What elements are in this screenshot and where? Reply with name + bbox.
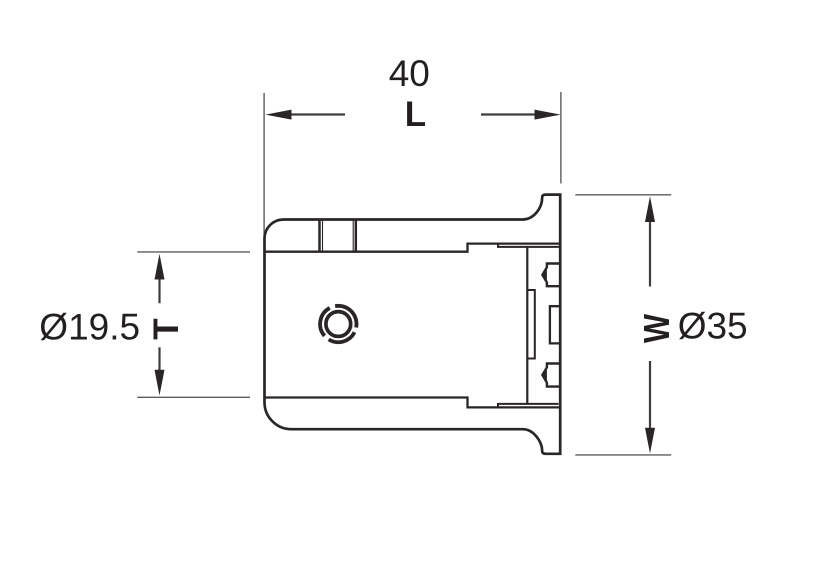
dimension W: up arrowhead (645, 196, 655, 222)
dimension L: dimension line left segment (290, 113, 345, 115)
dimension L: right arrowhead (535, 110, 561, 120)
bottom pin cutout (542, 364, 560, 387)
inner top line with step (265, 244, 560, 252)
svg-text:W: W (636, 314, 677, 343)
bottom pin cutout apex fill (542, 367, 547, 382)
inner bottom line with step (265, 398, 560, 408)
dimension T: bottom extension line (137, 396, 250, 398)
part body outer outline (265, 195, 561, 454)
inner bottom ledge line (498, 404, 559, 408)
top latch detail: left thin bar (322, 220, 324, 252)
dimension W: bottom extension line (575, 454, 671, 456)
dimension W: down arrowhead (645, 428, 655, 454)
dimension L: left arrowhead (265, 110, 291, 120)
dimension W: dimension line lower segment (649, 361, 651, 428)
narrow slot rectangle (527, 290, 535, 359)
svg-text:T: T (147, 318, 186, 339)
svg-text:Ø35: Ø35 (678, 305, 748, 346)
dimension L: left extension line (263, 93, 265, 239)
top pin cutout (542, 264, 560, 287)
svg-text:L: L (405, 95, 426, 134)
middle right rectangle (550, 306, 560, 343)
screw hole inner circle (326, 312, 351, 337)
dimension T: down arrowhead (155, 370, 165, 396)
dimension T: top extension line (137, 251, 250, 253)
socket recess left vertical (526, 247, 528, 404)
dimension T: dimension line upper segment (158, 278, 160, 303)
dimension L: dimension line right segment (481, 113, 535, 115)
dimension T: up arrowhead (155, 254, 165, 280)
top latch detail: right thick bar (355, 220, 358, 252)
screw hole outer arc bottom (329, 332, 355, 342)
dimension L: right extension line (560, 92, 562, 184)
inner top ledge line (498, 244, 559, 247)
top latch detail: left thick bar (318, 220, 321, 252)
svg-text:40: 40 (389, 53, 430, 94)
dimension W: dimension line upper segment (649, 222, 651, 287)
dimension T: dimension line lower segment (158, 347, 160, 371)
screw hole outer arc top-right (335, 306, 356, 328)
dimension W: top extension line (575, 194, 671, 196)
svg-text:Ø19.5: Ø19.5 (39, 306, 140, 347)
top latch detail: right thin bar (352, 220, 354, 252)
screw hole outer arc left (320, 308, 330, 336)
top pin cutout apex fill (542, 267, 547, 282)
